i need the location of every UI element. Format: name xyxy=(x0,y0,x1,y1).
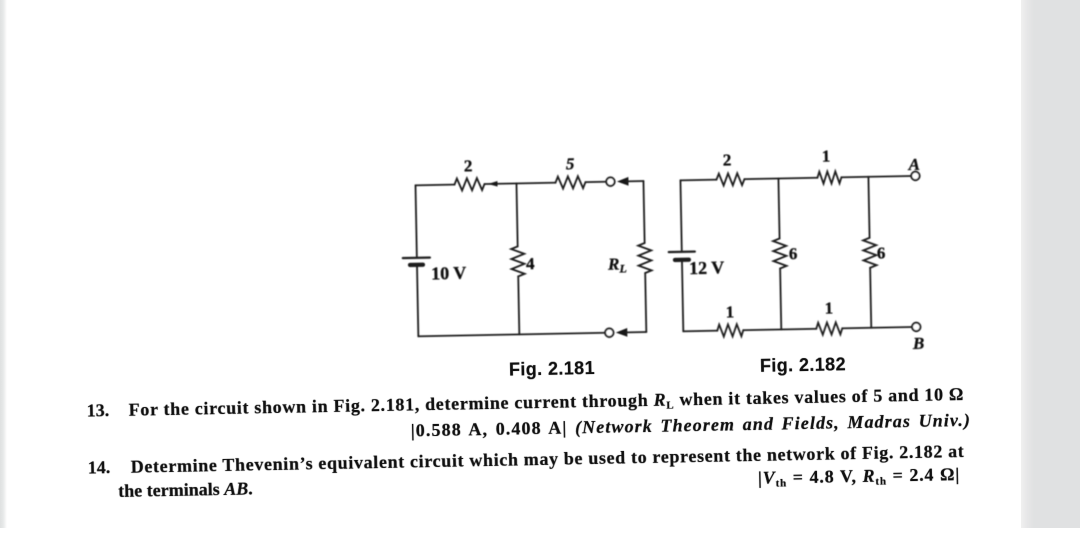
battery 10V short plate xyxy=(410,263,423,267)
problem 13 text xyxy=(128,384,964,421)
wire: left rail lower (Fig 2.181) xyxy=(417,266,418,336)
wire: arrow to top-right corner xyxy=(626,180,643,182)
wire: bottom right segment to terminal B xyxy=(842,327,912,328)
wire: top left segment (Fig 2.182) xyxy=(680,179,716,182)
wire: bottom segment to terminal (Fig 2.181) xyxy=(418,333,605,337)
terminal circle (Fig 2.181 top) xyxy=(606,177,615,186)
resistor 1 (Fig 2.182 top right) xyxy=(817,171,841,183)
wire: left rail lower (Fig 2.182) xyxy=(682,261,683,331)
battery 10V long plate xyxy=(403,256,430,259)
svg-text:6: 6 xyxy=(789,244,798,263)
svg-text:10 V: 10 V xyxy=(431,263,467,284)
problem 14 answer xyxy=(758,464,961,489)
svg-text:RL: RL xyxy=(607,254,627,275)
wire: middle rail lower (Fig 2.181) xyxy=(518,276,519,334)
problem 13 number xyxy=(86,400,109,421)
arrow into top terminal xyxy=(617,177,629,186)
svg-text:B: B xyxy=(912,334,925,353)
resistor 2 (Fig 2.182 top left) xyxy=(716,173,744,186)
svg-text:A: A xyxy=(907,155,920,174)
wire: left rail upper (Fig 2.182) xyxy=(680,180,681,250)
wire: resistor 5 to terminal xyxy=(585,181,606,183)
wire: bottom left segment (Fig 2.182) xyxy=(683,330,717,333)
wire: top middle segment (Fig 2.182) xyxy=(744,178,817,179)
svg-text:5: 5 xyxy=(566,154,575,173)
wire: second shunt branch upper (Fig 2.182) xyxy=(868,177,869,238)
wire: right rail lower (Fig 2.181) xyxy=(645,273,646,332)
left page edge strip xyxy=(0,0,8,528)
svg-text:2: 2 xyxy=(723,150,732,169)
wire: second shunt branch lower (Fig 2.182) xyxy=(870,268,871,328)
wire: middle rail upper (Fig 2.181) xyxy=(516,183,517,246)
resistor 4 (Fig 2.181 middle branch) xyxy=(511,246,525,276)
terminal A circle xyxy=(911,172,920,181)
terminal B circle xyxy=(912,323,921,332)
svg-text:4: 4 xyxy=(526,254,535,273)
arrow into bottom terminal xyxy=(616,328,628,337)
problem 14 number xyxy=(88,457,111,478)
wire: bottom right corner segment (Fig 2.181) xyxy=(626,331,646,333)
svg-text:12 V: 12 V xyxy=(689,258,725,279)
svg-text:2: 2 xyxy=(464,156,473,175)
resistor RL (Fig 2.181 right branch) xyxy=(638,243,652,273)
wire: first shunt branch lower (Fig 2.182) xyxy=(780,268,781,329)
wire: bottom middle segment (Fig 2.182) xyxy=(743,329,816,330)
wire: top left segment (Fig 2.181) xyxy=(415,184,454,187)
wire: top right segment to terminal A xyxy=(841,176,911,177)
battery 12V short plate xyxy=(675,258,689,262)
resistor 5 (Fig 2.181 top right) xyxy=(555,176,585,189)
svg-text:1: 1 xyxy=(822,147,831,166)
resistor 2 (Fig 2.181 top left) xyxy=(454,178,484,191)
resistor 6 (Fig 2.182 first shunt) xyxy=(773,238,787,268)
caption Fig. 2.182 xyxy=(751,354,855,377)
wire: first shunt branch upper (Fig 2.182) xyxy=(778,178,779,238)
svg-text:6: 6 xyxy=(877,243,886,262)
wire: right rail upper (Fig 2.181) xyxy=(643,181,644,243)
battery 12V long plate xyxy=(669,250,695,253)
problem 14 text xyxy=(131,441,965,478)
resistor 1 (Fig 2.182 bottom left) xyxy=(717,324,743,336)
resistor 1 (Fig 2.182 bottom right) xyxy=(816,322,842,334)
problem 13 answer xyxy=(411,410,972,442)
wire: left rail upper (Fig 2.181) xyxy=(415,185,416,256)
right gray panel xyxy=(1021,0,1080,528)
svg-text:1: 1 xyxy=(824,298,833,317)
terminal circle (Fig 2.181 bottom) xyxy=(605,328,614,337)
arrow dash after resistor 2 xyxy=(488,181,498,187)
problem 14 text line 2 xyxy=(118,478,253,502)
caption Fig. 2.181 xyxy=(500,358,604,381)
wire: top middle segment (Fig 2.181) xyxy=(484,183,555,184)
svg-text:1: 1 xyxy=(726,302,735,321)
resistor 6 (Fig 2.182 second shunt) xyxy=(863,238,877,268)
